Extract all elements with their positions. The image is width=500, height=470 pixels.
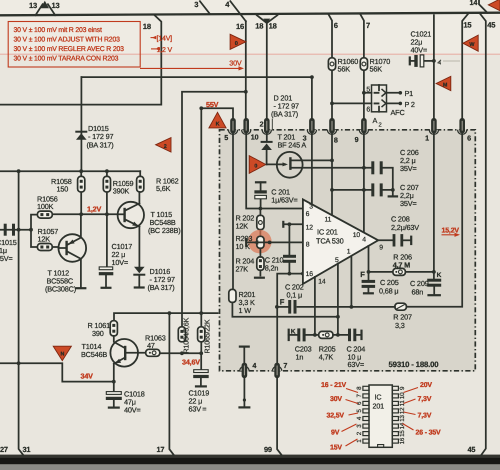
svg-text:8: 8	[334, 136, 338, 145]
svg-text:30 V ± 100 mV TARARA CON R203: 30 V ± 100 mV TARARA CON R203	[14, 56, 119, 63]
module pin 7 (bottom)	[273, 361, 288, 378]
wire op-amp pin5 stub	[337, 264, 339, 335]
junction T201 drain / pin8 line	[330, 159, 334, 163]
svg-text:34,6V: 34,6V	[182, 357, 200, 366]
wire: main rail y171	[0, 170, 140, 172]
svg-text:20V: 20V	[420, 382, 432, 389]
module pin 1	[425, 118, 438, 143]
node K junction	[432, 270, 436, 274]
connector A2 (AFC)	[366, 85, 415, 129]
svg-text:N: N	[60, 351, 64, 357]
potentiometer R203	[236, 234, 303, 251]
svg-text:16 - 21V: 16 - 21V	[321, 382, 347, 389]
svg-text:30 V ± 100 mV mit R 203 einst: 30 V ± 100 mV mit R 203 einst	[14, 27, 102, 34]
svg-text:9: 9	[379, 244, 383, 251]
svg-text:150: 150	[57, 185, 69, 194]
svg-text:390K: 390K	[113, 187, 130, 196]
reference triangle D (gate)	[249, 156, 266, 174]
capacitor C203	[289, 328, 319, 361]
module pin 9	[355, 118, 369, 144]
svg-text:40V=: 40V=	[124, 406, 141, 415]
resistor R1070	[360, 57, 390, 74]
svg-text:BF 245 A: BF 245 A	[278, 141, 307, 150]
node F junction	[367, 270, 371, 274]
junction C202/pin7 line	[275, 305, 279, 309]
resistor R207	[393, 303, 412, 330]
svg-text:201: 201	[373, 402, 385, 411]
svg-text:4: 4	[252, 361, 256, 370]
svg-text:63V =: 63V =	[189, 405, 207, 414]
junction C1015/divider	[29, 228, 33, 232]
red note box 30V adjust	[8, 22, 140, 68]
wire: R1058 leads	[80, 171, 82, 214]
IC 201 DIP package pinout	[356, 385, 406, 447]
svg-text:10 K: 10 K	[236, 242, 251, 251]
svg-text:18: 18	[269, 22, 277, 31]
wire: base row 1.2V y214	[52, 213, 118, 215]
wire: 34V source row	[0, 363, 114, 381]
svg-text:26 - 35V: 26 - 35V	[416, 430, 442, 437]
node 4 top entry / wire to node 16	[225, 0, 246, 21]
svg-text:8: 8	[306, 241, 310, 248]
junction y353/R1064	[180, 351, 184, 355]
diode D1016	[133, 267, 175, 292]
junction C207 row / pin8 line	[330, 188, 334, 192]
svg-text:15V: 15V	[330, 444, 342, 451]
wire net 45 right bus	[480, 13, 497, 455]
page bottom frame line	[0, 455, 500, 458]
svg-text:7,3V: 7,3V	[418, 413, 432, 420]
capacitor C202	[277, 282, 304, 313]
junction rail/R1059	[105, 169, 109, 173]
junction 34V/left bus	[17, 361, 21, 365]
svg-text:5,6K: 5,6K	[156, 184, 171, 193]
module dash-dot border	[220, 130, 476, 371]
svg-text:8,2n: 8,2n	[265, 264, 279, 273]
svg-text:7: 7	[283, 361, 287, 370]
wire: emitter row y353	[160, 352, 201, 354]
wire: net 17 drop to frame	[169, 313, 173, 455]
IC201 module shaded box	[220, 130, 476, 372]
wire node F row to node K	[369, 271, 434, 273]
svg-text:TCA 530: TCA 530	[316, 237, 344, 246]
svg-text:13: 13	[399, 415, 406, 422]
wire net 7 (R1070) to pin 9	[360, 14, 370, 118]
junction 34V/C1018	[112, 380, 116, 384]
capacitor C205	[362, 272, 399, 296]
svg-text:7: 7	[366, 21, 370, 30]
capacitor C1017	[99, 242, 132, 288]
junction C1021/net1	[432, 59, 436, 63]
capacitor C1018	[106, 390, 145, 415]
wire pin1 line inside down to node K	[433, 134, 435, 272]
wire: net 18 down to pin 2	[266, 23, 268, 118]
resistor R1061	[88, 321, 118, 338]
34V down-arrow source symbol	[53, 346, 71, 360]
svg-text:R1064/5,6K: R1064/5,6K	[183, 317, 191, 353]
wire pin9 line inside to op-amp pin 10	[363, 134, 365, 233]
wire C202/R207 row	[298, 306, 395, 308]
svg-text:5: 5	[366, 86, 370, 93]
svg-text:16: 16	[306, 271, 314, 278]
wire C207 row	[332, 189, 373, 191]
svg-text:9V: 9V	[331, 430, 340, 437]
resistor R202	[236, 209, 265, 237]
svg-text:13: 13	[52, 1, 60, 10]
junction y313/net17	[168, 311, 172, 315]
svg-text:34V: 34V	[81, 372, 94, 381]
junction R201 row / pin5 stub	[336, 315, 340, 319]
svg-text:31: 31	[23, 445, 31, 454]
svg-text:2,2μ/63V: 2,2μ/63V	[391, 223, 419, 232]
svg-text:IC: IC	[375, 393, 382, 402]
junction pin1/row	[350, 305, 354, 309]
svg-text:9: 9	[355, 135, 359, 144]
junction R1070/AFC contact 5	[362, 91, 366, 95]
svg-text:18: 18	[143, 22, 151, 31]
svg-text:35V=: 35V=	[400, 164, 417, 173]
red 30V arrow	[140, 58, 244, 70]
svg-text:4: 4	[362, 236, 366, 243]
svg-text:0: 0	[254, 164, 257, 170]
svg-text:40V=: 40V=	[411, 46, 428, 55]
wire net 6 (R1060) to pin 8	[328, 14, 337, 118]
junction base row/R1058/T1012	[79, 212, 83, 216]
wire: y92 link to net 16	[182, 92, 246, 327]
diode D201	[261, 94, 299, 165]
wire pin10 line to pin 6 row	[246, 134, 303, 209]
svg-text:K: K	[291, 328, 296, 335]
wire: 55V node and drop to pin 5	[201, 108, 233, 118]
junction y313/R1065	[199, 311, 203, 315]
svg-text:10: 10	[251, 132, 259, 141]
svg-text:35V=: 35V=	[400, 199, 417, 208]
svg-text:1n: 1n	[296, 353, 304, 362]
svg-text:14: 14	[318, 279, 326, 286]
svg-text:14: 14	[399, 422, 406, 429]
capacitor C207	[371, 183, 418, 208]
reference triangle 2	[156, 138, 171, 152]
reference triangle M	[436, 76, 451, 90]
junction R1060/AFC contact 6	[330, 102, 334, 106]
svg-text:1 W: 1 W	[239, 306, 252, 315]
svg-text:30 V ± 100 mV ADJUST WITH R203: 30 V ± 100 mV ADJUST WITH R203	[14, 36, 121, 43]
wire op-amp pin1 stub	[350, 256, 352, 307]
junction C206/C207 tie	[391, 188, 395, 192]
wire op-amp pin3 entry	[311, 134, 313, 205]
module pin 5	[224, 118, 237, 142]
svg-text:K: K	[216, 121, 220, 127]
resistor R1057	[37, 227, 58, 251]
wire: net 16 down to pin 10	[236, 21, 246, 118]
svg-text:12: 12	[306, 224, 314, 231]
svg-text:17: 17	[157, 445, 165, 454]
wire AFC stubs	[332, 93, 372, 104]
wire op-amp pin4 stub to node F	[368, 246, 370, 272]
svg-text:6: 6	[306, 211, 310, 218]
node 13-13 top entry arrow	[29, 1, 60, 15]
svg-text:(BA 317): (BA 317)	[271, 110, 298, 119]
wire T1012 base	[52, 246, 58, 248]
junction rail/left bus	[17, 169, 21, 173]
capacitor C201	[254, 182, 297, 208]
svg-text:12: 12	[399, 407, 406, 414]
module pin 3	[303, 118, 317, 142]
svg-text:(BA 317): (BA 317)	[148, 283, 175, 292]
junction C207 row / pin9 line	[362, 188, 366, 192]
svg-text:30 V ± 100 mV REGLER AVEC R 20: 30 V ± 100 mV REGLER AVEC R 203	[14, 46, 125, 53]
junction rail/D1015	[79, 169, 83, 173]
svg-text:4,7 M: 4,7 M	[393, 260, 410, 269]
wire: net 18 left column (x161)	[0, 15, 161, 104]
svg-text:6: 6	[366, 106, 370, 113]
resistor R1062	[137, 176, 179, 193]
wire net 1 (C1021 node) to pin 1	[433, 15, 435, 118]
svg-text:(BC308C): (BC308C)	[45, 285, 76, 294]
svg-text:(BA 317): (BA 317)	[87, 141, 114, 150]
svg-text:0,68 μ: 0,68 μ	[379, 287, 398, 296]
module pin 4 (bottom)	[240, 361, 257, 378]
wire pin6 line inside / R207 row	[406, 134, 462, 307]
svg-text:R1065/22K: R1065/22K	[204, 319, 212, 353]
reference triangle top-right corner (cut)	[488, 0, 500, 11]
svg-text:12K: 12K	[236, 222, 249, 231]
svg-text:P1: P1	[405, 89, 414, 98]
wire: R1059 leads / C1017 feed	[106, 171, 108, 267]
wire: left bus x18 down to frame	[19, 171, 24, 455]
resistor R201 + pin5-line	[229, 134, 338, 317]
svg-text:AFC: AFC	[391, 108, 405, 117]
svg-text:2: 2	[379, 122, 382, 129]
wire pin8 line inside to op-amp pin 11	[331, 134, 333, 215]
resistor R205	[319, 331, 336, 361]
svg-text:16: 16	[399, 437, 406, 444]
capacitor C1019	[189, 353, 210, 413]
red label 32.5V	[327, 413, 359, 420]
page top frame line	[0, 13, 500, 16]
svg-text:M: M	[443, 82, 448, 88]
node 14 top entry	[470, 0, 488, 13]
svg-text:F: F	[360, 270, 365, 279]
capacitor C206	[371, 148, 418, 190]
junction C210/row	[288, 272, 292, 276]
junction pin14/C203 row	[313, 333, 317, 337]
junction base row/R1059/C1017	[105, 212, 109, 216]
wire: D1015 branch x81	[80, 77, 82, 171]
svg-text:56K: 56K	[338, 65, 351, 74]
diode D1015	[75, 124, 113, 150]
resistor R204	[236, 248, 265, 277]
svg-text:11: 11	[325, 216, 332, 223]
junction node pin3 riser	[310, 75, 314, 79]
svg-text:0,1 μ: 0,1 μ	[287, 290, 302, 299]
svg-text:32,5V: 32,5V	[327, 413, 345, 420]
resistor R1065	[198, 319, 212, 353]
svg-text:14: 14	[470, 0, 478, 7]
resistor R1060	[328, 57, 358, 74]
red label 26-35V	[403, 424, 442, 437]
red label 7.3V pin12	[404, 412, 432, 420]
svg-text:27: 27	[0, 445, 8, 454]
node 18-18 entry funnel	[255, 15, 277, 30]
resistor R1064	[178, 317, 190, 353]
wire: 34.6V row y313	[114, 313, 218, 321]
op-amp IC 201 TCA 530	[303, 199, 383, 285]
transistor T201 (FET)	[267, 133, 373, 178]
svg-text:4,7K: 4,7K	[319, 353, 334, 362]
svg-text:2: 2	[164, 144, 167, 150]
svg-text:7,3V: 7,3V	[418, 396, 432, 403]
svg-text:30V: 30V	[330, 396, 342, 403]
capacitor C208	[378, 215, 419, 247]
resistor R206	[393, 252, 412, 275]
svg-text:K: K	[437, 272, 442, 279]
resistor R1056	[37, 195, 58, 219]
junction R203 wiper	[268, 241, 272, 245]
junction row/op-amp pin16	[301, 272, 305, 276]
capacitor C1015	[0, 224, 17, 263]
wire net 15 to pin 6	[462, 13, 472, 118]
resistor R1059	[103, 176, 133, 195]
svg-text:[14V]: [14V]	[157, 35, 173, 43]
svg-text:1: 1	[425, 134, 429, 143]
svg-text:47: 47	[147, 341, 155, 350]
svg-text:68n: 68n	[412, 288, 424, 297]
svg-text:10: 10	[399, 392, 406, 399]
warning triangle 55V	[209, 112, 226, 128]
wire pin4 bottom stub	[238, 347, 250, 408]
svg-text:1,2V: 1,2V	[87, 204, 101, 213]
svg-text:10: 10	[353, 232, 361, 239]
junction C1015/left bus	[17, 228, 21, 232]
module pin 6	[458, 118, 471, 142]
wire: R1062 top lead	[139, 171, 141, 176]
svg-text:10V=: 10V=	[112, 258, 129, 267]
svg-text:3,3: 3,3	[395, 321, 405, 330]
junction 55V node	[199, 106, 203, 110]
svg-text:390: 390	[92, 329, 104, 338]
svg-text:P 2: P 2	[405, 100, 415, 109]
capacitor C209	[410, 272, 441, 297]
junction y92/net16	[244, 90, 248, 94]
adjustment highlight circle	[248, 230, 272, 254]
svg-text:6: 6	[334, 21, 338, 30]
capacitor C210	[265, 224, 296, 273]
wire: R1056/R1057 left link	[31, 215, 37, 247]
junction pin9-line / C206 wire	[362, 166, 366, 170]
resistor R1058	[51, 176, 85, 193]
svg-text:30V: 30V	[229, 58, 242, 67]
transistor T1014	[81, 336, 146, 392]
svg-text:59310 - 188.00: 59310 - 188.00	[389, 360, 440, 369]
red label 7.3V pin10	[404, 396, 432, 404]
red label <1.2V	[151, 47, 172, 54]
scan fold line	[0, 54, 500, 55]
transistor T1015	[118, 192, 181, 267]
junction pin5/C203 row	[336, 333, 340, 337]
capacitor C1021	[410, 30, 460, 67]
svg-text:A: A	[373, 116, 378, 125]
module pin 8	[327, 118, 337, 145]
svg-text:63V=: 63V=	[348, 360, 365, 369]
capacitor C204	[333, 329, 365, 369]
svg-text:0: 0	[235, 41, 238, 47]
module pin 2	[260, 118, 272, 134]
wire pin12 row	[283, 221, 303, 228]
svg-text:IC 201: IC 201	[317, 228, 338, 237]
svg-text:99: 99	[264, 445, 272, 454]
svg-text:45: 45	[487, 21, 496, 30]
red label 15V	[330, 439, 358, 451]
wire pin7 drop to frame	[277, 378, 282, 455]
resistor R1063	[145, 334, 166, 357]
svg-text:45: 45	[468, 445, 476, 454]
svg-text:F: F	[280, 298, 285, 307]
svg-text:16: 16	[236, 22, 244, 31]
svg-text:15: 15	[463, 21, 472, 30]
node 3 top entry	[194, 0, 210, 14]
red label 16-21V	[321, 382, 358, 393]
wire: C1015 row	[0, 229, 31, 231]
svg-text:BC546B: BC546B	[81, 350, 107, 359]
wire op-amp pin14 stub	[314, 277, 316, 335]
svg-text:55V: 55V	[206, 100, 219, 109]
svg-text:12K: 12K	[38, 235, 51, 244]
wire: branch B x201 down through R1065	[200, 108, 202, 353]
module pin 10	[242, 118, 259, 141]
svg-text:25V=: 25V=	[0, 254, 13, 263]
svg-text:18: 18	[255, 22, 263, 31]
svg-text:15,2V: 15,2V	[442, 228, 460, 235]
junction y353/R1065/C1019	[199, 351, 203, 355]
red label 30V pin6	[330, 396, 358, 404]
svg-text:56K: 56K	[370, 65, 383, 74]
svg-text:13: 13	[29, 1, 37, 10]
red label 15.2V	[442, 228, 461, 237]
transistor T1012	[45, 214, 86, 293]
svg-text:6: 6	[467, 133, 471, 142]
junction C201/R202/pin6 row	[259, 207, 263, 211]
wire pin2 to D201	[266, 134, 268, 142]
page bottom black bar	[0, 457, 500, 464]
svg-text:3: 3	[194, 0, 198, 9]
svg-text:27K: 27K	[236, 265, 249, 274]
reference triangle W	[463, 35, 478, 51]
red label 9V	[331, 424, 357, 437]
svg-text:5: 5	[224, 133, 228, 142]
red label [14V]	[151, 35, 173, 43]
svg-text:1: 1	[347, 248, 351, 255]
red label 20V	[404, 382, 433, 393]
svg-text:100K: 100K	[37, 202, 54, 211]
svg-text:15: 15	[399, 430, 406, 437]
wire: 55V rail top-left (y77) to pin 3	[81, 77, 312, 118]
svg-text:(BC 238B): (BC 238B)	[148, 226, 180, 235]
svg-text:2: 2	[260, 120, 264, 129]
reference triangle 0 (net 16)	[230, 34, 246, 49]
wire pin16/pin7 row	[277, 274, 303, 363]
svg-text:1μ/63V=: 1μ/63V=	[271, 196, 297, 205]
junction pin12/C210	[288, 222, 292, 226]
